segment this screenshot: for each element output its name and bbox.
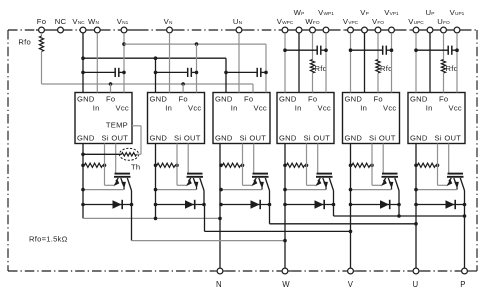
wire Si pin block 1 <box>104 144 106 186</box>
freewheel diode D1 <box>83 204 132 206</box>
wire VN1 terminal to block1 Vcc <box>123 33 125 93</box>
wire TEMP output to Th <box>132 125 141 127</box>
wire VWP1 to block4 Vcc <box>325 33 327 93</box>
svg-text:Fo: Fo <box>439 95 448 104</box>
freewheel diode D6 <box>416 204 465 206</box>
module outline bottom border <box>8 270 214 272</box>
wire Fo drop to block2 <box>182 84 184 93</box>
svg-text:OUT: OUT <box>313 134 330 143</box>
capacitor C6 (block6 supply) <box>416 49 448 51</box>
svg-text:Rfo=1.5kΩ: Rfo=1.5kΩ <box>29 235 68 244</box>
svg-text:In: In <box>360 103 367 112</box>
terminal VVPC <box>348 27 354 33</box>
svg-text:W: W <box>282 280 290 289</box>
IGBT Q1 <box>115 173 131 175</box>
terminal NC <box>58 27 64 33</box>
sense resistor block 4 (Si-GND) <box>287 163 305 167</box>
IGBT Q3 gate wire from OUT pin <box>253 144 255 174</box>
wire GND block5 down to V terminal <box>350 144 352 272</box>
svg-text:GND: GND <box>77 134 95 143</box>
wire GND block4 down to W terminal <box>284 144 286 272</box>
IGBT Q3 collector wire <box>269 191 271 205</box>
terminal WFO <box>310 27 316 33</box>
terminal U <box>413 268 419 274</box>
resistor Rfo block5 <box>377 33 379 60</box>
wire Fo rail <box>41 52 43 85</box>
sense resistor block 5 (Si-GND) <box>352 163 370 167</box>
resistor Rfo block4 <box>312 33 314 60</box>
driver IC block U2 <box>148 93 205 144</box>
svg-text:Vcc: Vcc <box>383 103 396 112</box>
svg-text:Si: Si <box>435 134 442 143</box>
wire emitter row block 5 <box>351 189 392 191</box>
IGBT Q4 collector wire <box>333 191 335 205</box>
svg-text:OUT: OUT <box>184 134 201 143</box>
capacitor C4 (block4 supply) <box>285 49 317 51</box>
svg-text:GND: GND <box>215 95 233 104</box>
wire GND block1 (VNC) down to N bus <box>82 144 84 219</box>
wire Si pin block 4 <box>306 144 308 186</box>
wire emitter row block 4 <box>285 189 326 191</box>
sense resistor block 2 (Si-GND) <box>157 163 175 167</box>
IGBT Q1 gate wire from OUT pin <box>115 144 117 174</box>
terminal VFO <box>375 27 381 33</box>
svg-text:GND: GND <box>150 95 168 104</box>
wire emitter row block 3 <box>221 189 262 191</box>
svg-text:Rfo: Rfo <box>446 64 459 73</box>
driver IC block U5 <box>343 93 400 144</box>
svg-text:GND: GND <box>215 134 233 143</box>
wire block6 collector to P terminal <box>464 205 466 272</box>
svg-text:Fo: Fo <box>179 95 188 104</box>
wire Vcc rail <box>124 43 266 45</box>
W rail wire (block1 collector to W terminal) <box>131 205 133 241</box>
IGBT Q5 gate wire from OUT pin <box>382 144 384 174</box>
sense resistor block 3 (Si-GND) <box>223 163 241 167</box>
svg-text:GND: GND <box>279 134 297 143</box>
svg-text:In: In <box>165 103 172 112</box>
svg-text:GND: GND <box>279 95 297 104</box>
svg-text:Vcc: Vcc <box>318 103 331 112</box>
svg-text:In: In <box>426 103 433 112</box>
IGBT Q6 collector wire <box>464 191 466 205</box>
svg-text:Si: Si <box>304 134 311 143</box>
svg-text:GND: GND <box>345 134 363 143</box>
svg-text:V: V <box>348 280 354 289</box>
svg-text:GND: GND <box>77 95 95 104</box>
N bus wire <box>83 217 220 219</box>
svg-text:U: U <box>413 280 419 289</box>
terminal UFO <box>441 27 447 33</box>
svg-text:Vcc: Vcc <box>449 103 462 112</box>
wire VNC rail <box>83 57 226 59</box>
sense resistor block 1 (Si-GND) <box>85 163 103 167</box>
svg-text:Rfo: Rfo <box>18 38 31 47</box>
svg-text:Vcc: Vcc <box>188 103 201 112</box>
terminal VUPC <box>413 27 419 33</box>
svg-text:OUT: OUT <box>249 134 266 143</box>
wire VVP1 to block5 Vcc <box>391 33 393 93</box>
thermistor Th <box>119 148 138 160</box>
IGBT Q6 gate wire from OUT pin <box>448 144 450 174</box>
terminal VN <box>167 27 173 33</box>
svg-text:Fo: Fo <box>308 95 317 104</box>
wire VNC drop to block3 GND <box>225 58 227 92</box>
terminal VWPC <box>282 27 288 33</box>
terminal UN <box>236 27 242 33</box>
svg-text:Fo: Fo <box>244 95 253 104</box>
wire VUPC to block6 GND <box>415 33 417 93</box>
wire VNC terminal to block1 GND <box>82 33 84 93</box>
svg-text:Vcc: Vcc <box>116 103 129 112</box>
wire Fo drop to block3 <box>252 84 254 93</box>
svg-text:OUT: OUT <box>111 134 128 143</box>
terminal N <box>217 268 223 274</box>
svg-text:Fo: Fo <box>106 95 115 104</box>
svg-text:P: P <box>460 280 465 289</box>
IGBT Q4 <box>317 173 333 175</box>
wire VNC drop to block2 GND <box>155 58 157 92</box>
sense resistor block 6 (Si-GND) <box>418 163 436 167</box>
driver IC block U3 <box>213 93 270 144</box>
wire emitter row block 6 <box>416 189 457 191</box>
freewheel diode D2 <box>156 204 205 206</box>
wire Vcc drop to block2 <box>196 44 198 92</box>
terminal UP <box>427 27 433 33</box>
terminal VNC <box>80 27 86 33</box>
driver IC block U1 <box>75 93 132 144</box>
IGBT Q2 gate wire from OUT pin <box>187 144 189 174</box>
IGBT Q6 <box>448 173 464 175</box>
svg-text:Rfo: Rfo <box>315 64 328 73</box>
svg-text:NC: NC <box>55 17 67 26</box>
wire GND block6 down to U terminal <box>415 144 417 272</box>
IGBT Q2 collector wire <box>203 191 205 205</box>
resistor Rfo (N side) <box>41 33 43 36</box>
svg-text:Rfo: Rfo <box>380 64 393 73</box>
driver IC block U6 <box>408 93 465 144</box>
wire Fo drop to block1 <box>110 84 112 93</box>
wire Si pin block 2 <box>176 144 178 186</box>
wire GND block2 down to N bus <box>155 144 157 219</box>
terminal VP <box>362 27 368 33</box>
terminal W <box>282 268 288 274</box>
terminal VVP1 <box>389 27 395 33</box>
capacitor C2 (block2 supply) <box>156 71 188 73</box>
IGBT Q3 <box>253 173 269 175</box>
module outline top border <box>8 29 36 31</box>
wire UN terminal to block3 In <box>238 33 240 93</box>
freewheel diode D5 <box>351 204 400 206</box>
svg-text:Si: Si <box>369 134 376 143</box>
U rail wire (block3 collector to U terminal) <box>269 205 271 224</box>
IGBT Q5 collector wire <box>398 191 400 205</box>
svg-text:Fo: Fo <box>374 95 383 104</box>
wire VWPC to block4 GND <box>284 33 286 93</box>
wire GND block3 down to N terminal <box>219 144 221 272</box>
svg-text:OUT: OUT <box>444 134 461 143</box>
wire VVPC to block5 GND <box>350 33 352 93</box>
svg-text:Si: Si <box>174 134 181 143</box>
V rail wire (block2 collector to V terminal) <box>204 205 206 232</box>
IGBT Q2 <box>187 173 203 175</box>
wire Vcc drop to block3 <box>265 44 267 92</box>
wire emitter row block 2 <box>156 189 197 191</box>
terminal VN1 <box>121 27 127 33</box>
wire Si pin block 3 <box>242 144 244 186</box>
capacitor C3 (block3 supply) <box>226 71 257 73</box>
freewheel diode D3 <box>221 204 270 206</box>
terminal VWP1 <box>323 27 329 33</box>
capacitor C5 (block5 supply) <box>351 49 383 51</box>
wire VP to block5 In <box>364 33 366 93</box>
svg-text:TEMP: TEMP <box>106 121 128 130</box>
svg-text:Th: Th <box>131 163 140 172</box>
svg-text:Si: Si <box>102 134 109 143</box>
module outline left border <box>7 30 9 271</box>
IGBT Q4 gate wire from OUT pin <box>317 144 319 174</box>
wire Si pin block 5 <box>371 144 373 186</box>
resistor Rfo block6 <box>443 33 445 60</box>
terminal V <box>348 268 354 274</box>
wire VUP1 to block6 Vcc <box>456 33 458 93</box>
wire Th left lead to GND line <box>83 153 122 155</box>
svg-text:N: N <box>216 280 222 289</box>
P bus wire <box>333 205 335 217</box>
svg-text:Vcc: Vcc <box>254 103 267 112</box>
driver IC block U4 <box>277 93 334 144</box>
wire Si pin block 6 <box>437 144 439 186</box>
wire emitter row block 1 <box>83 189 124 191</box>
terminal WP <box>296 27 302 33</box>
terminal P <box>462 268 468 274</box>
capacitor C1 (VNC-VN1) <box>83 71 115 73</box>
svg-text:In: In <box>295 103 302 112</box>
svg-text:Si: Si <box>240 134 247 143</box>
IGBT Q1 collector wire <box>131 191 133 205</box>
wire WN terminal to block1 In <box>96 33 98 93</box>
terminal WN <box>94 27 100 33</box>
svg-text:GND: GND <box>410 95 428 104</box>
svg-text:In: In <box>231 103 238 112</box>
IGBT Q5 <box>382 173 398 175</box>
terminal VUP1 <box>454 27 460 33</box>
module outline right border <box>476 30 478 271</box>
wire UP to block6 In <box>429 33 431 93</box>
svg-text:GND: GND <box>150 134 168 143</box>
wire VN terminal to block2 In <box>169 33 171 93</box>
svg-text:Fo: Fo <box>37 17 46 26</box>
wire WP to block4 In <box>298 33 300 93</box>
svg-text:OUT: OUT <box>379 134 396 143</box>
terminal Fo <box>39 27 45 33</box>
wire block5 collector to P bus <box>398 205 400 217</box>
svg-text:In: In <box>93 103 100 112</box>
freewheel diode D4 <box>285 204 334 206</box>
svg-text:GND: GND <box>410 134 428 143</box>
svg-text:GND: GND <box>345 95 363 104</box>
